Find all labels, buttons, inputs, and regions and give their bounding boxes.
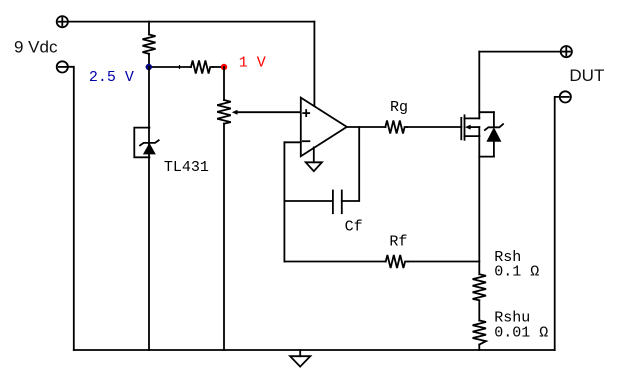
wire Rshu to bottom rail: [478, 345, 480, 351]
wire DUT+ horizontal: [479, 51, 561, 53]
wire body/source junction vertical: [478, 127, 480, 136]
node 1V (red junction dot): [221, 64, 227, 70]
wire from - terminal down to bottom rail: [67, 67, 73, 350]
svg-text:Cf: Cf: [345, 218, 363, 235]
wire op-amp inverting input: [284, 141, 300, 143]
wire source lead down to Rsh: [478, 136, 480, 274]
terminal + (DUT positive): [561, 46, 572, 57]
wire from R2 to 1V node: [213, 66, 224, 68]
transistor Q1 MOSFET drain stub: [465, 117, 480, 119]
wire top rail from + terminal to op-amp supply drop: [68, 21, 314, 23]
svg-text:DUT: DUT: [569, 66, 604, 85]
node 2.5V (blue junction dot): [146, 64, 152, 70]
wire op-amp V+ supply drop: [313, 22, 315, 106]
svg-text:9 Vdc: 9 Vdc: [14, 38, 58, 57]
ground (op-amp V- pin): [306, 147, 322, 171]
wire feedback left vertical (inv input down to Rf): [283, 142, 285, 261]
wire from feedback node to Cf left plate: [284, 200, 332, 202]
ground: [290, 350, 310, 367]
terminal - (9 Vdc negative): [57, 61, 68, 72]
svg-text:Rg: Rg: [390, 99, 408, 116]
transistor Q1 MOSFET body stub with arrow: [465, 125, 479, 130]
svg-text:TL431: TL431: [164, 159, 209, 176]
capacitor Cf: [333, 191, 342, 214]
wire from 2.5V node to resistor R2: [149, 66, 191, 68]
wire from 1V node down to potentiometer: [223, 67, 225, 100]
transistor Q1 MOSFET source stub: [465, 135, 480, 137]
body diode D1 branch top: [479, 111, 494, 113]
junction tick (R2 pin): [179, 66, 181, 69]
body diode D1 branch bottom: [479, 156, 494, 158]
TL431 U2 (zener diode in box): [134, 128, 158, 158]
transistor Q1 MOSFET channel bar: [464, 115, 466, 140]
svg-text:0.1 Ω: 0.1 Ω: [494, 263, 539, 280]
terminal - (DUT negative): [560, 91, 571, 102]
wire bottom rail: [74, 349, 555, 351]
wire drain lead (DUT+ down to drain stub): [478, 52, 480, 119]
wire from potentiometer bottom to bottom rail: [223, 124, 225, 350]
wire Rg to MOSFET gate: [407, 126, 461, 128]
wire from DUT- terminal down to bottom rail: [555, 97, 560, 350]
wire Rf to sense node: [408, 261, 479, 263]
wire from Cf right plate up to op-amp output: [342, 127, 359, 201]
body diode D1: [485, 112, 503, 156]
resistor Rg: [385, 121, 407, 134]
resistor Rshu: [473, 320, 486, 344]
svg-text:1 V: 1 V: [239, 55, 266, 72]
wire TL431 cathode (2.5V node down): [148, 67, 150, 350]
wire between Rsh and Rshu: [478, 300, 480, 320]
svg-text:0.01 Ω: 0.01 Ω: [494, 324, 548, 341]
svg-text:2.5 V: 2.5 V: [89, 69, 134, 86]
resistor Rsh: [473, 274, 486, 300]
op-amp U1: [301, 98, 347, 157]
svg-text:Rf: Rf: [389, 234, 407, 251]
resistor Rf feedback wire: [284, 261, 385, 263]
resistor Rf: [386, 255, 408, 268]
transistor Q1 MOSFET gate bar: [460, 118, 462, 139]
terminal + (9 Vdc positive): [57, 16, 68, 27]
potentiometer R3: [217, 100, 301, 124]
resistor R1 (top, from 9V rail to 2.5V node): [143, 22, 156, 67]
resistor R2 (2.5V node to 1V node): [191, 61, 213, 74]
wire op-amp output to Rg: [347, 126, 386, 128]
